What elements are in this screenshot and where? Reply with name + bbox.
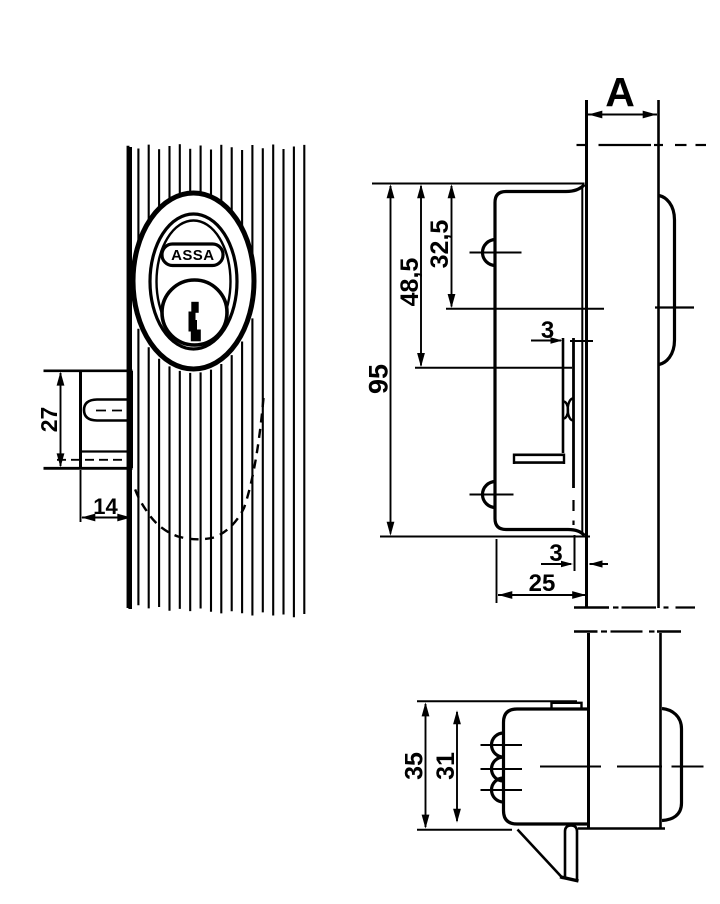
bracket rivet bulge [564, 402, 569, 419]
screw dome upper (top view) [483, 240, 496, 266]
svg-text:95: 95 [364, 364, 394, 394]
svg-text:32,5: 32,5 [426, 220, 454, 269]
bottom extension line (95) [380, 536, 590, 538]
latch unit top edge / ext line [44, 369, 133, 372]
profile plate outer face line (bottom view) [659, 633, 662, 828]
profile plate outer face line (top view) [657, 100, 660, 608]
cam lever bottom edge [560, 877, 579, 881]
break dash-dot row 2 [601, 630, 655, 632]
dimension 14 [81, 470, 132, 522]
lock case outline (bottom view) [504, 709, 589, 824]
screw centerline upper [470, 252, 522, 254]
screw dome 3 (bottom view) [492, 778, 504, 802]
latch unit bottom edge / ext line [44, 467, 133, 470]
cylinder outer oval ring [133, 193, 254, 369]
svg-text:31: 31 [432, 752, 460, 780]
cylinder inner oval ring outer contour [150, 214, 237, 349]
outside cylinder cover bulge (bottom view) [662, 709, 682, 821]
follower centerline dash-dot [57, 459, 132, 461]
mounting bracket foot [514, 454, 564, 465]
ASSA brand pill [162, 244, 223, 266]
dimension 31 [432, 710, 461, 822]
break bar left plate (bottom view) [574, 630, 598, 633]
svg-text:25: 25 [529, 570, 556, 597]
dimension A [588, 69, 657, 118]
door stile hatching [128, 144, 304, 617]
upper centerline dash-dot [577, 144, 707, 146]
inner plate rivet bulge [568, 399, 573, 421]
top extension line (35) [417, 700, 577, 702]
break bar right plate (bottom view) [657, 630, 681, 633]
case right edge against plate (top view) [581, 186, 583, 533]
door stile left edge [130, 147, 132, 609]
bottom edge of plate section (bottom view) [578, 827, 665, 829]
top extension line [372, 183, 585, 185]
cam lever bar [565, 826, 577, 880]
lock case outline (top view) [495, 185, 585, 536]
screw centerline lower [470, 494, 514, 496]
break bar left plate (top view) [574, 606, 609, 609]
screw dome lower (top view) [483, 482, 496, 508]
dimension 25 [498, 570, 587, 599]
break dash-dot row 1 [613, 606, 695, 608]
cam lever slant edge [518, 830, 564, 879]
case top tab (bottom view) [552, 703, 582, 709]
screw tick 2 [481, 768, 523, 770]
screw dome 1 (bottom view) [492, 733, 504, 757]
cover centerline tick [655, 306, 694, 308]
follower bar line [82, 450, 133, 452]
inner plate line (top view) [572, 338, 575, 525]
32.5 extension line [446, 308, 604, 310]
cylinder axis centerline (bottom view) [540, 766, 704, 768]
profile plate inner face line (top view) [585, 100, 588, 609]
cylinder inner oval ring inner contour [157, 221, 231, 343]
bottom extension line (35) [417, 829, 512, 831]
profile plate inner face line (bottom view) [587, 633, 590, 828]
screw dome 2 (bottom view) [492, 757, 504, 781]
latch bolt [84, 400, 133, 421]
dimension 3 upper [531, 317, 593, 344]
dimension 48,5 [396, 184, 425, 367]
dimension 32,5 [426, 184, 455, 308]
hidden contour dashed arc [135, 398, 264, 539]
outside cylinder cover bulge (top view) [659, 196, 675, 365]
dimension 95 [364, 184, 395, 535]
dimension 27 [36, 372, 64, 468]
mounting bracket vertical (top view) [562, 338, 565, 453]
svg-text:35: 35 [401, 752, 429, 780]
svg-text:48,5: 48,5 [396, 258, 424, 307]
svg-text:A: A [605, 69, 635, 115]
svg-text:3: 3 [541, 317, 554, 344]
48.5 extension line [415, 367, 572, 369]
svg-text:27: 27 [36, 407, 62, 433]
extension line case left edge (25 dim) [496, 539, 498, 603]
latch unit left edge [79, 370, 82, 469]
screw tick 3 [481, 789, 523, 791]
svg-text:14: 14 [93, 494, 118, 519]
keyway slot [189, 302, 201, 342]
dimension 3 lower [541, 535, 608, 571]
latch bolt centerline dashes [96, 410, 128, 412]
key cylinder circle [162, 280, 227, 345]
svg-text:ASSA: ASSA [171, 247, 214, 264]
screw tick 1 [481, 744, 523, 746]
svg-text:3: 3 [549, 540, 562, 567]
dimension 35 [401, 702, 430, 828]
